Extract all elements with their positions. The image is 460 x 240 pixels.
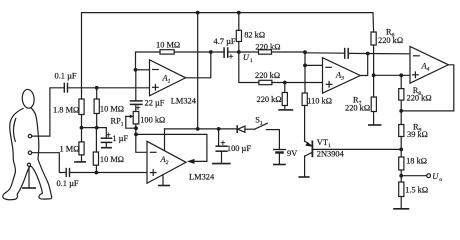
node A2 fb junction [134,133,138,137]
wire 110k to collector [304,106,306,142]
svg-text:220 kΩ: 220 kΩ [255,71,280,80]
diode D1 [236,126,238,132]
node U1 [237,50,241,54]
wire 220kv leads [284,83,286,93]
svg-text:100 µF: 100 µF [227,144,251,153]
svg-text:22 µF: 22 µF [145,99,165,108]
wire 1.8M to node [81,115,83,142]
svg-text:0.1 µF: 0.1 µF [57,179,79,188]
node R8 R9 junction [399,109,403,113]
svg-text:39 kΩ: 39 kΩ [407,130,428,139]
wire Uo tap [401,175,427,177]
wire 82k leads [238,13,240,31]
node bias-junction [80,126,84,130]
svg-text:18 kΩ: 18 kΩ [406,157,427,166]
svg-text:LM324: LM324 [171,97,197,106]
ground under 1M [81,155,83,162]
resistor 10M lower [93,152,98,165]
capacitor 4.7uF [223,48,225,57]
svg-text:220 kΩ: 220 kΩ [345,104,370,113]
wire fbcap to A4 minus [348,52,410,54]
svg-text:1 MΩ: 1 MΩ [60,145,80,154]
wire emitter lead [304,156,306,177]
svg-text:1.5 kΩ: 1.5 kΩ [405,185,428,194]
wire A2 feedback loop [136,134,207,161]
capacitor 100uF [218,129,220,146]
svg-text:9V: 9V [287,149,297,158]
svg-text:LM324: LM324 [189,173,215,182]
resistor 10M feedback [160,50,174,54]
resistor R7 [371,97,376,112]
ground under figure [23,187,36,189]
electrode E1 [28,134,31,137]
wire switch to battery [278,130,280,149]
op-amp A4 [410,46,448,83]
wire to A3 plus [272,82,323,84]
resistor R8 [399,89,404,101]
svg-text:10 MΩ: 10 MΩ [100,155,124,164]
resistor 1.5k [399,182,404,197]
potentiometer RP1 [133,112,139,125]
A3 plus sign [326,83,332,85]
ground under battery [274,164,285,166]
A1 minus sign [153,69,159,71]
ground under emitter [299,176,309,178]
terminal Uo [427,174,431,178]
wire rail to supply line [197,13,199,129]
human body figure [22,89,35,109]
node A3 minus top [303,50,307,54]
wire U1 down branch [239,52,259,83]
capacitor 1uF [105,128,107,138]
A4 minus sign [414,55,420,57]
resistor 220k upper [259,50,272,54]
wire A3 output riser [360,54,367,76]
svg-text:1: 1 [250,58,253,64]
node input junction [95,86,99,90]
svg-text:0.1 µF: 0.1 µF [55,72,77,81]
capacitor 0.1uF upper [63,83,65,92]
node 100uF junction [217,127,221,131]
svg-text:10 MΩ: 10 MΩ [156,41,180,50]
op-amp A3 [323,58,361,93]
svg-text:1 µF: 1 µF [112,134,128,143]
resistor 1M [79,142,84,155]
capacitor 0.1uF lower [65,169,67,177]
resistor 110k [302,93,307,106]
ground under 1uF [102,147,111,149]
wire supply line [165,128,238,130]
wire A1 output riser [186,52,211,78]
wire electrode3 ground lead [28,166,30,187]
wire R7 leads [373,75,375,97]
wire 10M upper leads [96,88,98,99]
svg-text:220 kΩ: 220 kΩ [407,94,432,103]
svg-text:2N3904: 2N3904 [317,150,345,159]
node Uo junction [399,174,403,178]
node 10M junction [95,126,99,130]
op-amp A2 [147,141,186,183]
node wiper junction [134,126,138,130]
battery 9V [274,149,286,151]
wire electrode2 to lower cap [32,153,66,173]
1uF plus mark [107,133,111,137]
wire R9 leads [400,111,402,125]
A2 output arrow [187,159,195,164]
svg-text:110 kΩ: 110 kΩ [307,96,332,105]
wire R6 lead to plus line [373,45,375,75]
100uF plus mark [221,141,225,145]
svg-text:1.8 MΩ: 1.8 MΩ [53,106,79,115]
node A3 out junction [366,52,370,56]
wire top supply rail [82,13,374,99]
resistor 10M upper [94,99,99,114]
node A1 inv junction [134,68,138,72]
A2 minus sign [150,151,156,153]
resistor 220k second [259,80,272,84]
wire riser to 110k [304,65,306,93]
node base junction [399,148,403,152]
A1 plus sign [153,86,159,88]
A4 plus sign [413,74,419,76]
node supply riser junction [196,127,200,131]
resistor 1.8M [79,99,84,115]
wire plus line to A4 [374,74,410,76]
op-amp A1 [150,60,186,96]
wire cap to U1 node [228,51,239,53]
node rail-junction x198 [196,11,200,15]
ground bottom right [394,208,409,210]
wire 1.5k leads [400,176,402,182]
wire diode to switch [245,128,255,130]
svg-text:U: U [432,172,439,181]
wire lower cap to A2 plus [70,172,148,174]
wire 18k leads [400,149,402,157]
svg-text:10 MΩ: 10 MΩ [100,105,124,114]
capacitor 22uF [135,70,137,101]
human arm line [14,119,16,142]
wire 10M lower leads [95,128,97,152]
A3 minus sign [326,66,332,68]
wire A2 power pin [164,129,166,151]
node R6 R7 junction [372,73,376,77]
electrode E3 [27,163,30,166]
electrode E2 [28,151,31,154]
svg-text:4.7 µF: 4.7 µF [214,37,236,46]
node A3 inv junction [303,64,307,68]
node A1 output junction [209,50,213,54]
resistor 220k vertical [282,93,287,106]
transistor VT1 2N3904 [311,141,313,156]
svg-text:220 kΩ: 220 kΩ [257,95,282,104]
svg-text:82 kΩ: 82 kΩ [244,31,265,40]
22uF plus mark [136,106,140,110]
wire A1 inverting input [136,69,150,71]
node 10M lower junction [95,171,99,175]
wire A3 inv riser [305,52,323,65]
node rail-junction x239 [237,11,241,15]
resistor R6 [371,32,376,45]
wire U1 to A3 minus node [239,51,305,53]
wire bias node row y127.6 [82,127,107,129]
4.7uF plus mark [229,55,232,58]
svg-text:U: U [243,53,250,62]
wire pot to A2 minus [136,124,147,152]
switch S1 [255,123,268,129]
svg-text:220 kΩ: 220 kΩ [255,43,280,52]
capacitor A3 feedback [344,49,346,59]
svg-text:o: o [439,177,442,183]
wire base line [313,148,401,150]
wire electrode1 to cap [32,88,65,136]
A2 plus sign [150,172,156,174]
resistor 82k [236,30,241,41]
ground under R7 [369,124,381,126]
wire A3 fb cap line [305,52,345,54]
ground under 100uF [213,163,230,165]
wire A1 feedback loop [136,52,161,70]
wire cap to A1 plus [68,87,150,89]
node R8 top junction [399,73,403,77]
ground A2 vminus [162,175,164,185]
resistor 18k [399,157,404,170]
RP1 wiper arrow [126,115,131,117]
node divider junction [283,81,287,85]
wire A4 output loop [401,65,454,111]
resistor R9 [399,125,404,137]
wire feedback to output node [174,51,224,53]
wire R8 leads [400,75,402,88]
svg-text:100 kΩ: 100 kΩ [140,116,165,125]
svg-text:220 kΩ: 220 kΩ [378,36,403,45]
ground under 220kv [279,109,292,111]
